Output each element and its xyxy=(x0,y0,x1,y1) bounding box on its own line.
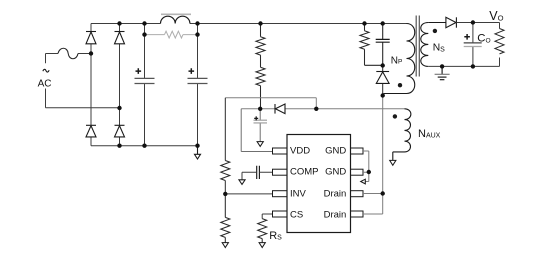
COMP capacitor C5 xyxy=(257,166,260,179)
wire R5 to INV node xyxy=(224,181,226,194)
pin GND 2 xyxy=(351,169,364,175)
node rail R4 xyxy=(362,21,366,25)
ground (RS, open arrow) xyxy=(259,243,265,248)
node Co top xyxy=(471,20,475,24)
primary phase dot xyxy=(398,83,402,87)
node bottom rail D4 xyxy=(117,144,121,148)
ground (aux, open arrow) xyxy=(390,160,396,165)
transformer core xyxy=(416,16,419,77)
wire GND pins loop xyxy=(363,151,369,182)
svg-text:VO: VO xyxy=(489,9,503,23)
wire bulk cap C2 branch xyxy=(197,24,199,146)
label ~ xyxy=(43,69,49,72)
pin COMP xyxy=(273,169,288,175)
bulk capacitor C1 xyxy=(135,78,155,83)
pin CS xyxy=(273,211,288,217)
svg-text:NS: NS xyxy=(433,42,445,53)
svg-text:Drain: Drain xyxy=(324,210,347,221)
snubber resistor R4 xyxy=(360,24,383,66)
ground (C5, open arrow) xyxy=(239,180,245,185)
pin labels left xyxy=(290,145,319,220)
pin Drain 2 xyxy=(351,211,364,217)
feedback resistor R5 (upper) xyxy=(221,161,230,181)
node primary bottom xyxy=(381,93,385,97)
wire VDD cap branch xyxy=(259,109,261,142)
wire CS xyxy=(262,214,272,219)
node snubber RC xyxy=(381,63,385,67)
pin GND 1 xyxy=(351,148,364,154)
svg-text:RS: RS xyxy=(269,230,282,242)
wire feedback divider vertical xyxy=(224,98,226,161)
node bottom rail C1 xyxy=(142,144,146,148)
AC source loop xyxy=(46,54,120,108)
inductor core bar xyxy=(161,13,191,15)
node rail C2 xyxy=(195,21,199,25)
wire output top xyxy=(456,23,499,29)
fuse F1 xyxy=(58,48,78,59)
load resistor RL xyxy=(495,29,504,54)
node IC GND xyxy=(367,170,371,174)
snubber diode D5 xyxy=(376,65,389,95)
pin INV xyxy=(273,191,288,197)
label Co plus xyxy=(464,34,470,40)
node R1 left xyxy=(142,32,146,36)
ground (R6, open arrow) xyxy=(222,243,228,248)
bridge diode D4 xyxy=(115,125,125,137)
svg-text:Drain: Drain xyxy=(324,188,347,199)
startup resistor R2 xyxy=(256,24,265,68)
secondary phase dot xyxy=(433,29,437,33)
svg-text:CS: CS xyxy=(290,210,303,221)
wire output bottom xyxy=(428,58,499,67)
ground (C4, open arrow) xyxy=(257,142,263,147)
node fuse/bridge xyxy=(89,51,93,55)
VDD capacitor C4 xyxy=(254,120,268,123)
bridge diode D3 xyxy=(86,125,96,137)
ground (IC GND, open arrow left) xyxy=(361,179,366,184)
wire bridge left branch xyxy=(90,24,92,146)
wire COMP xyxy=(242,172,273,180)
wire bridge right branch xyxy=(119,24,121,146)
wire bottom rail xyxy=(91,145,198,147)
startup resistor R3 xyxy=(256,67,265,109)
bridge diode D2 xyxy=(115,32,125,44)
aux phase dot xyxy=(393,114,397,118)
wire top rail xyxy=(91,23,407,25)
svg-text:NAUX: NAUX xyxy=(418,128,441,140)
transformer aux winding Naux xyxy=(393,109,411,161)
node R1 right xyxy=(195,32,199,36)
svg-text:INV: INV xyxy=(290,188,307,199)
bridge diode D1 xyxy=(86,32,96,44)
node sense corner xyxy=(314,107,318,111)
wire aux sense line xyxy=(225,98,404,109)
earth ground (secondary) xyxy=(435,66,450,79)
damping resistor R1 (parallel with L1, grey) xyxy=(145,31,198,38)
node drain xyxy=(381,191,385,195)
svg-text:NP: NP xyxy=(391,55,403,66)
node rail C1 xyxy=(142,21,146,25)
wire drain net xyxy=(363,96,383,215)
node Co bottom xyxy=(471,64,475,68)
node rail C3 xyxy=(381,21,385,25)
ground (bulk, open arrow) xyxy=(195,146,201,159)
VDD diode D7 xyxy=(275,104,285,114)
transformer T1 primary Np xyxy=(383,24,415,96)
pin Drain 1 xyxy=(351,191,364,197)
wire INV xyxy=(225,193,272,195)
svg-text:VDD: VDD xyxy=(290,145,310,156)
node rail D2 xyxy=(117,21,121,25)
feedback resistor R6 (lower) xyxy=(221,194,230,243)
transformer secondary Ns xyxy=(421,23,446,67)
node bottom rail C2 xyxy=(195,144,199,148)
svg-text:GND: GND xyxy=(325,145,346,156)
label C4 plus xyxy=(254,116,258,120)
pin VDD xyxy=(273,148,288,154)
inductor L1 (EMI choke) xyxy=(161,16,190,23)
node secondary gnd xyxy=(440,64,444,68)
node rail R2 xyxy=(258,21,262,25)
node INV xyxy=(223,192,227,196)
sense resistor RS xyxy=(258,219,267,243)
wire Co branch xyxy=(472,23,474,67)
svg-text:CO: CO xyxy=(477,33,490,45)
pin labels right xyxy=(324,145,347,220)
svg-text:GND: GND xyxy=(325,167,346,178)
output diode D6 xyxy=(446,17,457,27)
bulk capacitor C2 xyxy=(188,78,208,83)
node VDD xyxy=(258,107,262,111)
svg-text:COMP: COMP xyxy=(290,167,319,178)
wire VDD loop xyxy=(241,109,272,152)
label C1 plus xyxy=(136,68,142,74)
output capacitor Co xyxy=(464,42,482,44)
wire bulk cap C1 branch xyxy=(144,24,146,146)
label C2 plus xyxy=(189,68,195,74)
node AC return xyxy=(117,106,121,110)
svg-text:AC: AC xyxy=(38,78,52,89)
op IC U1 box xyxy=(287,135,351,233)
snubber capacitor C3 xyxy=(376,24,390,66)
